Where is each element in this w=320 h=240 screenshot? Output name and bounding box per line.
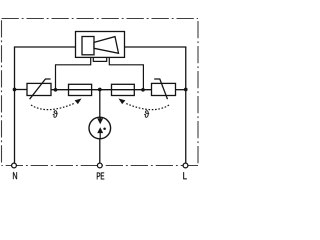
thermal disconnector F2 through-wire xyxy=(112,89,135,91)
thermal trip arc right with theta xyxy=(119,99,170,118)
horn cone xyxy=(94,37,119,54)
varistor RV1 diagonal xyxy=(30,79,51,99)
label N xyxy=(13,172,17,179)
wire: center vertical PE path xyxy=(99,90,101,164)
G1 lower electrode arrow xyxy=(97,127,103,133)
G1 upper electrode arrow xyxy=(97,118,103,124)
wire: varistor to left fuse xyxy=(51,89,69,91)
signalling device box U1 xyxy=(76,32,125,58)
thermal disconnector F1 (left fuse) body xyxy=(69,84,92,95)
wire: left vertical N riser xyxy=(14,47,16,163)
wire: right varistor to L riser xyxy=(176,89,186,91)
G1 gas dot xyxy=(103,127,106,130)
label PE xyxy=(97,173,100,180)
wire: top-right horizontal from signal box xyxy=(125,46,187,48)
junction node at N riser xyxy=(13,88,17,92)
thermal disconnector F2 (right fuse) body xyxy=(112,84,135,95)
varistor RV1 (left) body xyxy=(27,83,51,95)
wire: right fuse to right varistor xyxy=(134,89,151,91)
terminal PE circle xyxy=(97,163,102,168)
wire: left fuse to right fuse via center node xyxy=(92,89,112,91)
wire: monitoring tap left run xyxy=(56,65,91,90)
pin: signal box left leg xyxy=(91,57,94,65)
varistor RV2 diagonal xyxy=(154,79,167,99)
enclosure dash-dot border top xyxy=(2,18,199,20)
wire: top-left horizontal to signal box xyxy=(14,46,76,48)
terminal L circle xyxy=(183,163,188,168)
horn driver square xyxy=(82,37,94,55)
thermal trip arc left with theta xyxy=(31,99,82,118)
enclosure dash-dot border right xyxy=(197,21,199,166)
G1 upper stub wire xyxy=(99,117,101,119)
wire: branch row N-dot to varistor xyxy=(15,89,28,91)
wire: monitoring middle link xyxy=(93,60,106,62)
pin: signal box right leg xyxy=(107,57,110,65)
enclosure dash-dot border bottom xyxy=(2,165,199,167)
junction node center PE tap xyxy=(98,88,102,92)
wire: right vertical L riser xyxy=(185,47,187,163)
G1 lower stub wire xyxy=(99,132,101,139)
varistor RV2 (right) body xyxy=(152,83,176,95)
gas discharge tube G1 circle xyxy=(89,117,111,139)
junction node left monitor tap xyxy=(54,88,58,92)
label L xyxy=(183,172,186,179)
thermal disconnector F1 through-wire xyxy=(69,89,92,91)
enclosure dash-dot border left xyxy=(1,19,3,166)
junction node at L riser xyxy=(184,88,188,92)
junction node right monitor tap xyxy=(141,88,145,92)
terminal N circle xyxy=(12,163,17,168)
wire: monitoring tap right run xyxy=(109,65,143,90)
